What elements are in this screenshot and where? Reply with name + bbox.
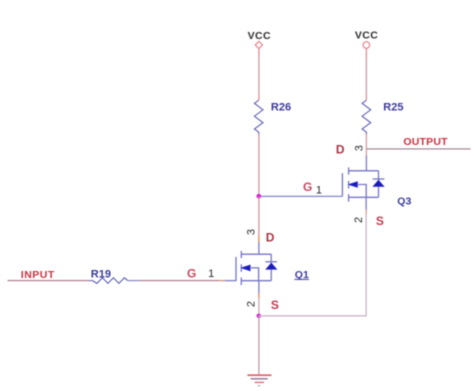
reference designator Q1 [295,269,309,281]
svg-text:VCC: VCC [248,30,271,42]
transistor Q3 [342,167,384,201]
drain stub [349,170,379,172]
ground [247,375,271,386]
wire node S to ground [258,316,260,375]
resistor R19 [91,269,128,284]
svg-text:2: 2 [245,301,257,307]
pin 2 of Q3 (source pin lead) [365,197,367,211]
wire-pin blend Q1 gate [220,280,226,282]
svg-text:R19: R19 [91,269,111,281]
wire-pin blend Q1 drain [258,236,260,242]
wire R26 to node G1 [258,134,260,196]
svg-text:R25: R25 [383,101,403,113]
svg-text:OUTPUT: OUTPUT [403,136,448,148]
wire-pin blend Q3 source [365,210,367,215]
gate plate [341,173,343,196]
wire INPUT to R19 [8,280,94,282]
wire R25 to OUTPUT node [365,134,367,149]
gate plate [222,257,236,281]
body to source link [357,185,366,198]
svg-text:3: 3 [246,229,258,235]
channel segments [240,251,242,258]
wire OUTPUT node to Q3 drain [365,149,367,156]
drain stub [241,253,271,255]
pin 3 of Q1 (drain pin lead) [258,241,260,255]
svg-text:D: D [266,230,275,244]
svg-text:3: 3 [353,145,365,151]
power symbol VCC (right) [355,30,378,49]
resistor R19 right pin lead [128,280,140,282]
body diode of Q1 [270,254,272,281]
source stub [349,196,379,198]
svg-text:G: G [187,266,196,280]
svg-text:2: 2 [353,217,365,223]
wire node G1 to Q3 gate [261,195,342,197]
svg-text:S: S [376,214,384,228]
transistor Q1 [222,251,277,285]
wire VCC right to R25 [365,48,367,60]
body to source link [250,268,259,281]
node S junction dot [257,314,262,319]
channel segments [348,167,350,174]
body diode of Q3 [378,171,380,198]
svg-text:1: 1 [208,268,214,280]
svg-text:S: S [271,298,279,312]
wire-pin blend Q1 source [258,293,260,298]
source stub [241,280,271,282]
pin 3 of Q3 (drain pin lead) [365,156,367,171]
wire node S to Q3 source [259,211,366,316]
power symbol VCC (left) [248,30,271,49]
node G1 junction dot [257,194,262,199]
body arrow [240,265,250,272]
wire VCC left to R26 [258,48,260,59]
svg-text:Q3: Q3 [397,195,411,207]
resistor R19 left pin lead [89,280,93,282]
wire Q1 source pin [258,281,260,296]
wire R19 to Q1 gate [140,280,223,282]
wire node G1 to Q1 drain [258,196,260,241]
body arrow [348,181,358,188]
resistor R25 [362,100,403,134]
port OUTPUT wire [366,148,470,150]
resistor R26 [254,100,291,134]
svg-text:1: 1 [316,185,322,197]
svg-text:INPUT: INPUT [21,269,55,281]
svg-text:VCC: VCC [355,30,378,42]
svg-text:R26: R26 [271,102,291,114]
svg-text:D: D [336,143,345,157]
svg-text:G: G [303,180,312,194]
